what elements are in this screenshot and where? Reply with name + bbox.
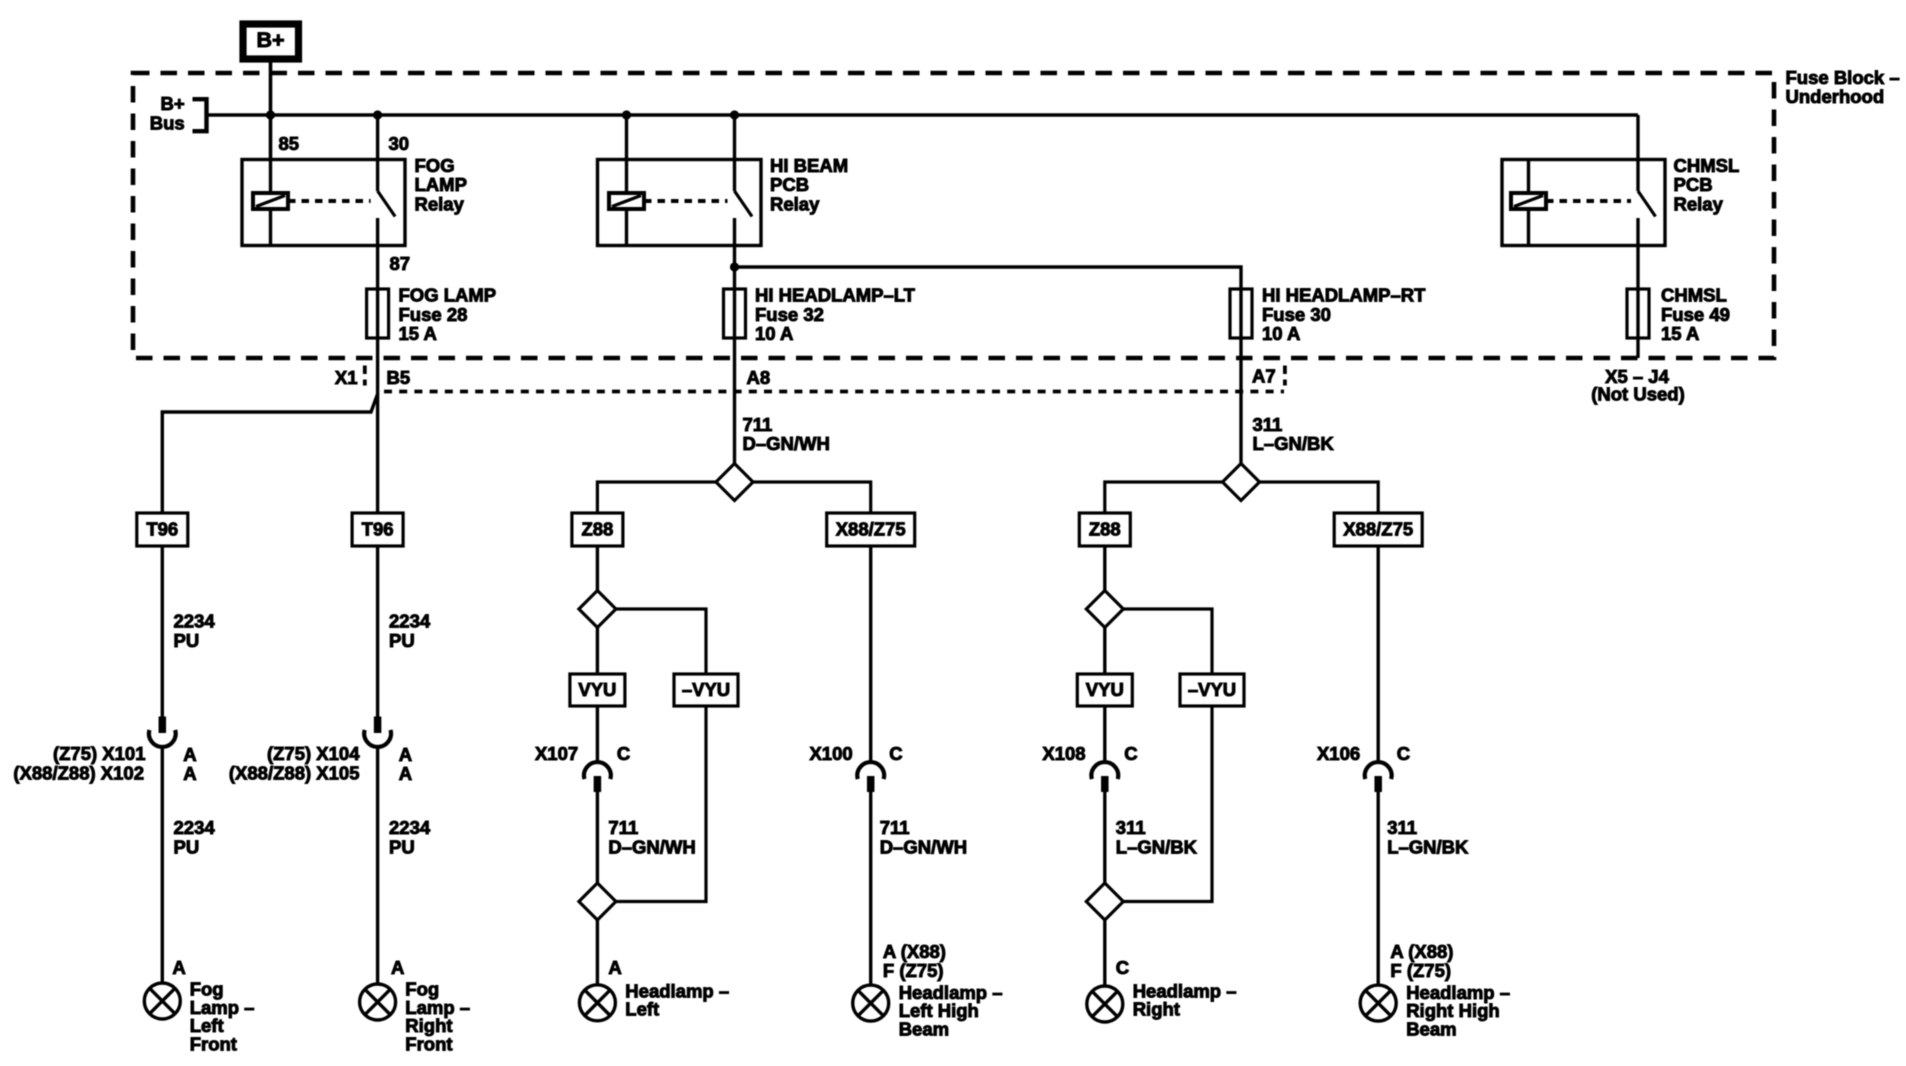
wire X88/Z75 down to connector X100 (LT): [869, 546, 872, 763]
wire bus to HI BEAM relay coil: [625, 115, 628, 160]
wire B+ terminal down to FOG LAMP relay coil pin 85: [269, 62, 273, 160]
wire bus to FOG relay pin 30: [376, 115, 379, 160]
splice diamond low beam (RT): [1086, 591, 1123, 628]
wire bus corner down to CHMSL relay pin 30: [1636, 115, 1639, 160]
svg-text:D–GN/WH: D–GN/WH: [608, 836, 695, 857]
wire fuse output LT down to splice diamond: [733, 338, 736, 464]
wire diamond to lamp E3 Headlamp - Left: [596, 920, 599, 985]
lamp E5 Headlamp - Right: [1087, 986, 1123, 1022]
svg-text:30: 30: [389, 133, 410, 154]
splice pack X88/Z75 (RT): [1334, 513, 1422, 546]
junction dot HI BEAM output branch: [730, 262, 739, 271]
svg-text:L–GN/BK: L–GN/BK: [1253, 433, 1335, 454]
fuse F28 FOG LAMP Fuse 28 15A: [367, 289, 389, 338]
wire connector to right fog lamp: [376, 746, 379, 984]
svg-text:VYU: VYU: [1086, 679, 1124, 700]
wire connector to left fog lamp: [161, 746, 164, 983]
svg-text:FOG: FOG: [415, 155, 455, 176]
svg-text:311: 311: [1116, 817, 1146, 838]
wire X88/Z75 down to connector X106 (RT): [1376, 546, 1379, 763]
splice diamond low beam (LT): [579, 591, 616, 628]
svg-text:311: 311: [1387, 817, 1417, 838]
svg-text:C: C: [889, 743, 902, 764]
svg-text:F (Z75): F (Z75): [1390, 960, 1451, 981]
svg-text:2234: 2234: [389, 817, 431, 838]
in-line connector X106 pin C: [1365, 762, 1392, 779]
svg-text:X107: X107: [535, 743, 578, 764]
svg-text:C: C: [1397, 743, 1410, 764]
svg-text:FOG LAMP: FOG LAMP: [399, 285, 497, 306]
wire through VYU to connector X108 (RT): [1103, 628, 1106, 763]
net label -VYU (RT): [1180, 674, 1244, 706]
svg-text:PCB: PCB: [1674, 174, 1713, 195]
svg-text:PU: PU: [174, 836, 200, 857]
fuse F30 HI HEADLAMP-RT Fuse 30 10A: [1230, 289, 1252, 338]
svg-text:X108: X108: [1042, 743, 1085, 764]
wire branch to left fog lamp (jog): [162, 394, 377, 513]
splice diamond at lamp (LT): [579, 883, 616, 920]
svg-text:L–GN/BK: L–GN/BK: [1387, 836, 1469, 857]
wire HI BEAM relay pin 87 to Fuse 32: [733, 246, 736, 339]
svg-text:–VYU: –VYU: [1188, 679, 1236, 700]
svg-text:Fuse Block –: Fuse Block –: [1786, 67, 1900, 88]
svg-text:87: 87: [390, 253, 411, 274]
junction dot bus / B+ drop: [266, 110, 275, 119]
wire fuse 28 output through connector B5 down to right T96: [376, 338, 379, 513]
svg-text:X88/Z75: X88/Z75: [1343, 519, 1413, 540]
svg-text:Relay: Relay: [415, 193, 465, 214]
svg-text:(Not Used): (Not Used): [1591, 383, 1685, 404]
svg-text:B+: B+: [256, 28, 284, 52]
svg-text:711: 711: [743, 414, 773, 435]
svg-text:Fuse 49: Fuse 49: [1661, 304, 1730, 325]
wire branch HI BEAM output to Fuse 30: [735, 267, 1242, 338]
svg-text:2234: 2234: [389, 611, 431, 632]
svg-text:A: A: [608, 957, 621, 978]
wire diamond to Z88 (RT): [1105, 482, 1223, 513]
splice diamond RT feed: [1223, 464, 1260, 501]
wire CHMSL fuse stub to connector X5-J4 (not used): [1636, 338, 1639, 358]
svg-text:X88/Z75: X88/Z75: [836, 519, 906, 540]
svg-text:A: A: [183, 763, 196, 784]
svg-text:85: 85: [279, 133, 300, 154]
svg-text:B5: B5: [387, 367, 411, 388]
svg-text:311: 311: [1253, 414, 1283, 435]
junction dot bus / HI BEAM relay pin 30: [730, 110, 739, 119]
svg-text:–VYU: –VYU: [682, 679, 730, 700]
splice pack Z88 (LT): [572, 513, 623, 546]
net label -VYU (LT): [674, 674, 738, 706]
svg-text:Front: Front: [405, 1034, 452, 1055]
svg-text:B+: B+: [161, 93, 185, 114]
svg-text:PU: PU: [389, 836, 415, 857]
svg-text:A: A: [399, 763, 412, 784]
splice pack T96 (right): [352, 513, 403, 546]
wire T96 left to connector X101/X102: [161, 546, 164, 717]
svg-text:LAMP: LAMP: [415, 174, 467, 195]
lamp E3 Headlamp - Left: [579, 985, 615, 1021]
wire X108 to lamp splice diamond (RT): [1103, 789, 1106, 883]
net label VYU (RT): [1077, 674, 1132, 706]
in-line connector X101/X102 (left fog lamp): [159, 717, 167, 734]
svg-text:HI HEADLAMP–RT: HI HEADLAMP–RT: [1262, 285, 1426, 306]
splice pack X88/Z75 (LT): [827, 513, 915, 546]
svg-text:10 A: 10 A: [755, 323, 793, 344]
lamp E1 Fog Lamp - Left Front: [144, 983, 180, 1019]
relay K2 HI BEAM PCB Relay: [598, 160, 762, 246]
wire X107 to lamp splice diamond (LT): [596, 789, 599, 883]
wire -VYU branch riser (RT): [1123, 706, 1212, 902]
svg-text:Left: Left: [625, 999, 659, 1020]
splice diamond at lamp (RT): [1086, 883, 1123, 920]
svg-text:(Z75) X104: (Z75) X104: [267, 743, 360, 764]
svg-text:Relay: Relay: [770, 193, 820, 214]
wire FOG relay pin 87 to Fuse 28: [376, 246, 379, 339]
svg-text:A (X88): A (X88): [883, 941, 946, 962]
svg-text:Relay: Relay: [1674, 193, 1724, 214]
svg-text:Fuse 30: Fuse 30: [1262, 304, 1331, 325]
wire Z88 down to lower splice diamond (LT): [596, 546, 599, 591]
svg-text:HI BEAM: HI BEAM: [770, 155, 848, 176]
svg-text:HI HEADLAMP–LT: HI HEADLAMP–LT: [755, 285, 916, 306]
wire diamond to lamp E5 Headlamp - Right: [1103, 920, 1106, 986]
svg-text:A: A: [391, 957, 404, 978]
junction dot bus / FOG relay pin 30: [373, 110, 382, 119]
svg-text:2234: 2234: [174, 817, 216, 838]
connector mark at X1: [363, 366, 367, 386]
svg-text:X106: X106: [1317, 743, 1360, 764]
svg-text:X1: X1: [335, 367, 358, 388]
svg-text:A8: A8: [747, 367, 771, 388]
in-line connector X104/X105 (right fog lamp): [374, 717, 382, 734]
svg-text:10 A: 10 A: [1262, 323, 1300, 344]
svg-text:711: 711: [608, 817, 638, 838]
svg-text:Z88: Z88: [1089, 519, 1121, 540]
wire Z88 down to lower splice diamond (RT): [1103, 546, 1106, 591]
svg-text:A: A: [172, 957, 185, 978]
wire diamond to Z88 (LT): [597, 482, 716, 513]
svg-text:VYU: VYU: [578, 679, 616, 700]
splice pack Z88 (RT): [1079, 513, 1130, 546]
svg-text:Beam: Beam: [899, 1018, 949, 1039]
wire diamond to X88/Z75 (LT): [753, 482, 871, 513]
wire CHMSL relay pin 87 to Fuse 49: [1636, 246, 1639, 339]
net label VYU (LT): [570, 674, 625, 706]
in-line connector X108 pin C: [1091, 762, 1118, 779]
svg-text:711: 711: [880, 817, 910, 838]
wire through VYU to connector X107 (LT): [596, 628, 599, 763]
wire X106 to lamp E6 Headlamp - Right High Beam: [1376, 789, 1379, 985]
in-line connector X100 pin C: [857, 762, 884, 779]
svg-text:Underhood: Underhood: [1786, 86, 1885, 107]
wire diamond to X88/Z75 (RT): [1260, 482, 1379, 513]
svg-text:L–GN/BK: L–GN/BK: [1116, 836, 1198, 857]
connector mark at A7: [1283, 366, 1287, 386]
svg-text:(X88/Z88) X105: (X88/Z88) X105: [229, 762, 360, 783]
wire T96 right to connector X104/X105: [376, 546, 379, 717]
svg-text:Fuse 32: Fuse 32: [755, 304, 824, 325]
svg-text:PU: PU: [389, 630, 415, 651]
svg-text:CHMSL: CHMSL: [1674, 155, 1740, 176]
svg-text:C: C: [1124, 743, 1137, 764]
svg-text:Z88: Z88: [581, 519, 613, 540]
battery feed terminal B+: [243, 24, 299, 59]
wire B+ bus horizontal: [207, 113, 1639, 116]
svg-text:Beam: Beam: [1406, 1018, 1456, 1039]
wire -VYU branch riser (LT): [616, 706, 706, 902]
wire X100 to lamp E4 Headlamp - Left High Beam: [869, 789, 872, 985]
svg-text:X100: X100: [809, 743, 852, 764]
svg-text:A7: A7: [1252, 366, 1276, 387]
svg-text:Right: Right: [1133, 999, 1180, 1020]
svg-text:15 A: 15 A: [1661, 323, 1699, 344]
svg-text:Bus: Bus: [150, 112, 185, 133]
lamp E2 Fog Lamp - Right Front: [360, 984, 396, 1020]
svg-text:T96: T96: [362, 519, 394, 540]
splice pack T96 (left): [137, 513, 188, 546]
in-line connector X107 pin C: [584, 762, 611, 779]
svg-text:C: C: [617, 743, 630, 764]
lamp E6 Headlamp - Right High Beam: [1360, 985, 1396, 1021]
fuse F49 CHMSL Fuse 49 15A: [1627, 289, 1649, 338]
wire bus to HI BEAM relay pin 30: [733, 115, 736, 160]
connector boundary dotted line (engine harness): [384, 390, 1284, 394]
svg-text:CHMSL: CHMSL: [1661, 285, 1727, 306]
lamp E4 Headlamp - Left High Beam: [853, 985, 889, 1021]
svg-text:15 A: 15 A: [399, 323, 437, 344]
wire diamond to -VYU branch (RT): [1123, 609, 1212, 674]
fuse block dashed boundary (Fuse Block - Underhood): [133, 73, 1774, 358]
svg-text:(Z75) X101: (Z75) X101: [53, 743, 146, 764]
svg-text:(X88/Z88) X102: (X88/Z88) X102: [13, 762, 144, 783]
svg-text:PCB: PCB: [770, 174, 809, 195]
relay K1 FOG LAMP Relay: [242, 160, 405, 246]
wire diamond to -VYU branch (LT): [616, 609, 706, 674]
junction dot bus / HI BEAM relay coil: [622, 110, 631, 119]
splice diamond LT feed: [716, 464, 753, 501]
svg-text:A (X88): A (X88): [1390, 941, 1453, 962]
svg-text:Front: Front: [190, 1034, 237, 1055]
svg-text:D–GN/WH: D–GN/WH: [880, 836, 967, 857]
svg-text:F (Z75): F (Z75): [883, 960, 944, 981]
svg-text:T96: T96: [146, 519, 178, 540]
fuse F32 HI HEADLAMP-LT Fuse 32 10A: [724, 289, 746, 338]
svg-text:2234: 2234: [174, 611, 216, 632]
svg-text:PU: PU: [174, 630, 200, 651]
svg-text:C: C: [1116, 957, 1129, 978]
wire fuse output RT down to splice diamond: [1239, 338, 1242, 464]
svg-text:D–GN/WH: D–GN/WH: [743, 433, 830, 454]
svg-text:Fuse 28: Fuse 28: [399, 304, 468, 325]
relay K3 CHMSL PCB Relay: [1502, 160, 1665, 246]
